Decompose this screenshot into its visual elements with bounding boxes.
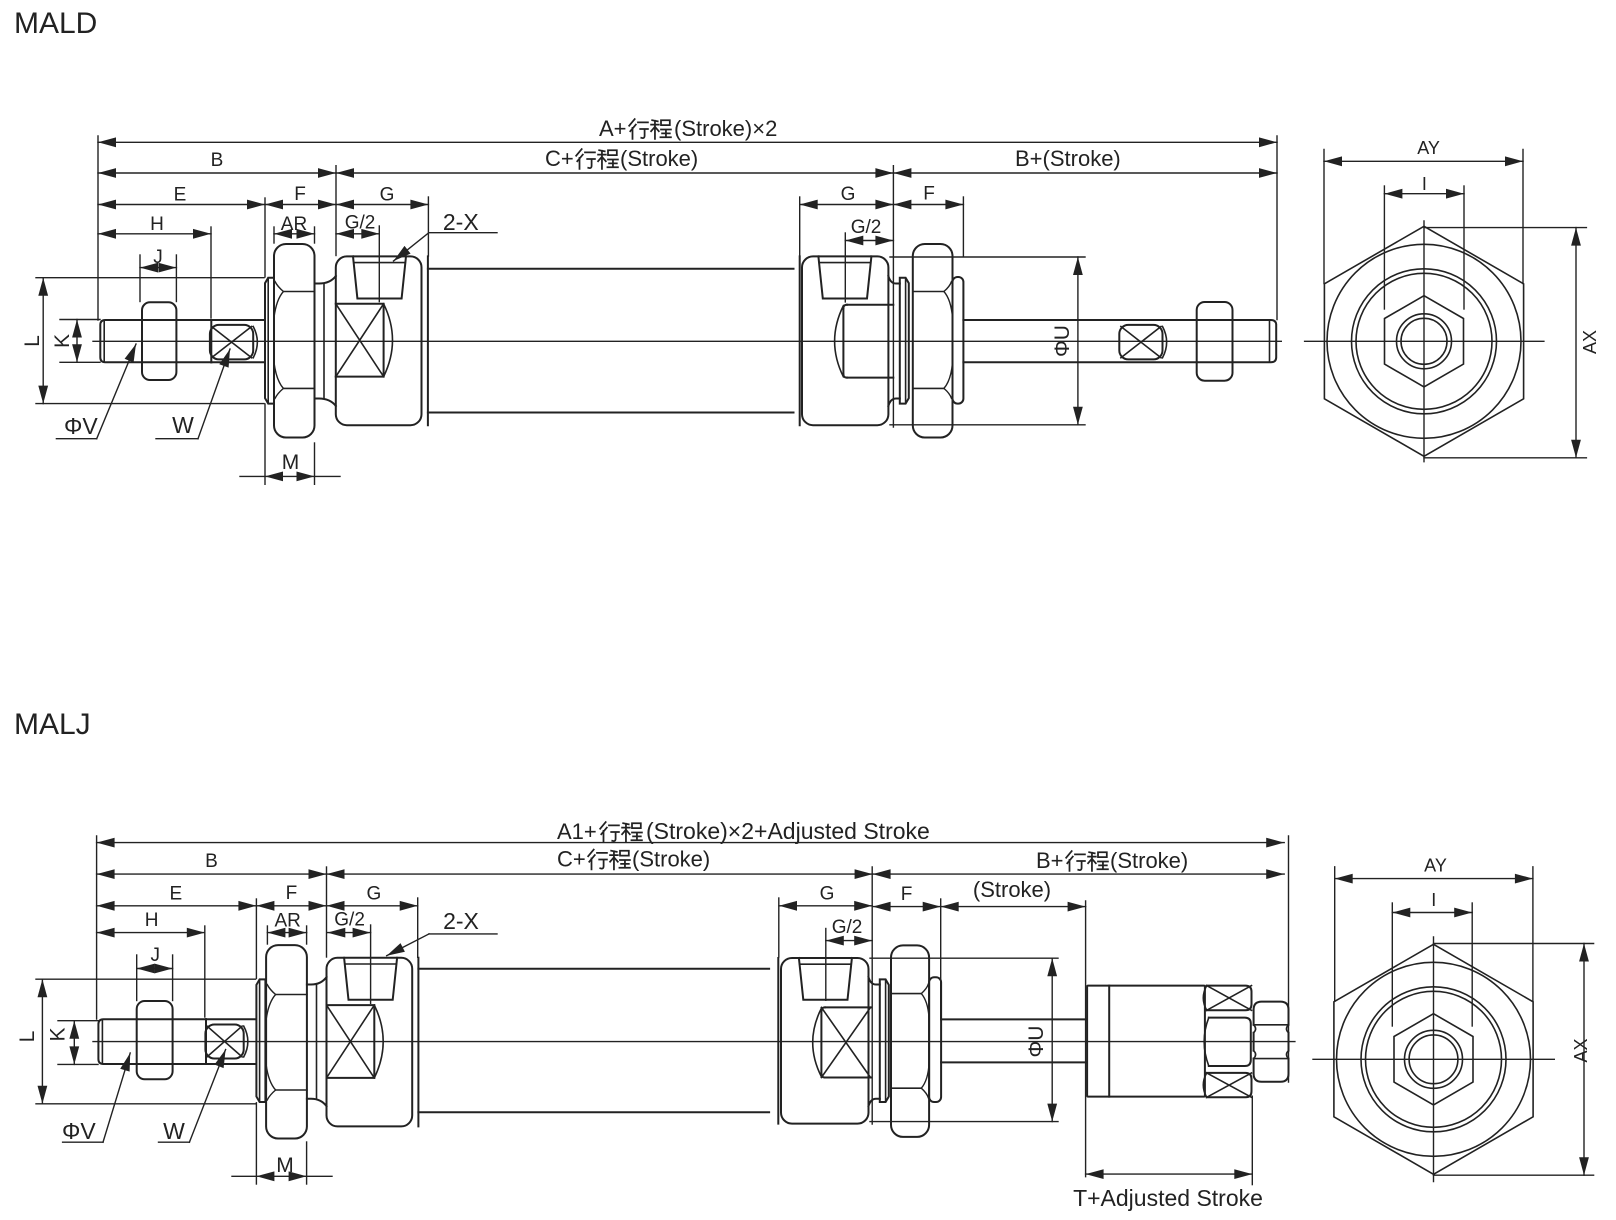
rear head cap MALJ [781, 958, 869, 1124]
svg-text:F: F [294, 184, 306, 205]
dimension G MALJ rear [779, 905, 872, 907]
dimension G (front) [336, 204, 428, 206]
svg-text:(Stroke)×2: (Stroke)×2 [674, 116, 777, 141]
cylinder tube (barrel) [428, 269, 794, 413]
adjuster body (shock absorber) [1087, 986, 1205, 1097]
end view crosshair centerlines [1305, 340, 1544, 342]
dimension F (rear) [893, 204, 963, 206]
piston rod MALJ (front) [98, 1019, 206, 1064]
extension lines I MALJ [1391, 903, 1393, 1026]
dimension AR MALJ [267, 932, 306, 934]
svg-text:W: W [163, 1118, 185, 1144]
extension lines AY [1323, 150, 1325, 284]
adjusting screw hex head [1254, 1002, 1289, 1025]
dimension F MALJ rear [873, 906, 941, 908]
boss neck MALJ front [307, 977, 327, 984]
dimension B MALJ [97, 873, 327, 875]
extension lines AX [1424, 227, 1586, 229]
svg-text:B+: B+ [1036, 848, 1064, 873]
svg-text:A+: A+ [599, 116, 627, 141]
extension line cap face MALJ [326, 867, 328, 957]
extension line left datum [97, 136, 99, 320]
end view tube inner circle [1356, 273, 1492, 409]
adjuster bottom wrench block with cross [1207, 1073, 1252, 1097]
adjusting screw boss [1209, 1018, 1251, 1066]
svg-text:M: M [282, 451, 300, 474]
rod nut J MALJ [137, 1001, 173, 1079]
svg-text:K: K [51, 334, 74, 348]
rear piston boss (no cross) [843, 305, 893, 378]
extension line G right MALJ [417, 898, 419, 957]
mounting hex nut MALJ rear [891, 945, 929, 1137]
svg-text:F: F [923, 184, 935, 205]
svg-text:L: L [21, 335, 44, 347]
dimension C+Stroke MALJ [327, 873, 873, 875]
extension lines PhiU horizontal [890, 256, 1085, 258]
svg-text:G/2: G/2 [334, 910, 365, 931]
extension line T right MALJ [1251, 1096, 1253, 1184]
svg-text:ΦU: ΦU [1051, 325, 1074, 357]
extension lines AR [273, 227, 275, 243]
dimension J MALJ [137, 968, 173, 970]
svg-text:J: J [151, 945, 161, 966]
front head cap MALJ [327, 958, 413, 1127]
svg-text:(Stroke): (Stroke) [620, 146, 698, 171]
dimension C+Stroke [336, 172, 893, 174]
rear thread boss tip [953, 277, 964, 404]
svg-text:A1+: A1+ [557, 819, 597, 844]
end view rod thread circle [1401, 318, 1447, 364]
piston rod (front, threaded) [100, 320, 211, 362]
extension line cap face B/C F/G [335, 166, 337, 256]
dimension I MALJ [1392, 912, 1472, 914]
dimension G MALJ front [327, 905, 418, 907]
rod wrench flats MALJ with cross [205, 1025, 243, 1059]
rear cap seam MALJ [777, 958, 779, 1124]
dimension F MALJ front [256, 905, 326, 907]
svg-text:MALJ: MALJ [14, 708, 91, 741]
svg-text:AY: AY [1424, 856, 1447, 876]
svg-text:B: B [205, 851, 218, 872]
extension lines K horizontal [60, 319, 100, 321]
end view MALJ rod thread circle [1409, 1035, 1458, 1084]
end view MALJ hexagon [1334, 944, 1533, 1174]
end view MALJ rod circle [1405, 1030, 1463, 1088]
mounting washer MALJ rear [880, 979, 889, 1102]
front head cap [336, 256, 422, 425]
rear piston boss MALJ with cross [821, 1007, 870, 1077]
extension line C/B boundary MALJ [871, 867, 873, 1124]
svg-text:2-X: 2-X [443, 209, 479, 235]
front cushion boss MALJ with cross [327, 1005, 375, 1078]
extension line washer face MALJ [255, 899, 257, 979]
svg-text:J: J [153, 247, 163, 268]
mounting boss neck between nut and front cap [315, 276, 336, 283]
svg-text:L: L [16, 1031, 39, 1043]
extension line C/B+ boundary rear cap face [892, 166, 894, 427]
extension line rod end for H [210, 227, 212, 318]
svg-text:E: E [169, 884, 182, 905]
dimension AY MALJ [1335, 878, 1533, 880]
extension lines AR MALJ [266, 926, 268, 944]
svg-text:I: I [1422, 174, 1427, 194]
end view tube outer circle [1352, 269, 1497, 414]
rear boss neck MALJ [869, 977, 880, 984]
rear port 2-X trapezoid [818, 256, 871, 298]
svg-text:(Stroke): (Stroke) [632, 847, 710, 872]
dimension G/2 (rear) [845, 240, 893, 242]
dimension E MALJ [97, 905, 257, 907]
svg-text:AX: AX [1571, 1038, 1591, 1062]
rear head cap [802, 256, 888, 425]
dimension A+Stroke x2 overall [98, 141, 1277, 143]
dimension L (vertical) [42, 278, 44, 404]
dimension AX MALJ [1583, 944, 1585, 1176]
rear port trapezoid MALJ [799, 958, 852, 1000]
rear rod wrench flats with cross mark [1119, 325, 1162, 360]
svg-text:ΦU: ΦU [1025, 1026, 1048, 1058]
extension line rear G left [799, 197, 801, 256]
svg-text:(Stroke)×2+Adjusted Stroke: (Stroke)×2+Adjusted Stroke [646, 818, 930, 844]
svg-text:B: B [211, 150, 224, 171]
dimension M [240, 475, 340, 477]
dimension B+(Stroke) rear [893, 172, 1277, 174]
rod thread silhouette lines to washer [211, 319, 265, 321]
extension line F right rear [962, 197, 964, 257]
end view hex chamfer circle [1327, 244, 1521, 438]
mounting hex nut MALJ front [266, 945, 307, 1138]
end view MALJ rod boss hexagon [1394, 1014, 1473, 1105]
svg-text:M: M [276, 1154, 294, 1177]
svg-text:2-X: 2-X [443, 908, 479, 934]
dimension G/2 (front) [336, 233, 379, 235]
rear cap flange seam line [799, 256, 801, 425]
dimension K MALJ [73, 1021, 75, 1065]
rear thread boss tip MALJ [929, 977, 941, 1102]
dimension G/2 MALJ rear [826, 940, 872, 942]
front port 2-X trapezoid MALJ [344, 958, 397, 1000]
front cap seam MALJ [417, 958, 419, 1127]
dimension B (front) [98, 172, 336, 174]
rod wrench flats W with cross mark [210, 325, 253, 360]
extension line left datum MALJ [96, 836, 98, 1019]
svg-text:C+: C+ [557, 847, 586, 872]
extension line right datum rod end [1276, 136, 1278, 320]
mounting hex nut (rear) [913, 244, 953, 438]
extension line F right MALJ [940, 899, 942, 1019]
svg-text:ΦV: ΦV [64, 413, 98, 439]
extension line A1/B right MALJ [1288, 836, 1290, 1082]
dimension T+Adjusted Stroke [1086, 1173, 1253, 1175]
extension lines PhiU MALJ horizontal [870, 957, 1058, 959]
svg-text:C+: C+ [545, 146, 574, 171]
end view MALJ crosshair [1313, 1058, 1554, 1060]
end view hexagon outline [1324, 226, 1523, 456]
mounting washer (front) [265, 278, 274, 404]
extension lines I [1383, 186, 1385, 309]
extension line rod end MALJ [204, 926, 206, 1017]
dimension AY [1324, 160, 1523, 162]
mounting washer MALJ front [256, 979, 265, 1102]
dimension B+Stroke MALJ rear [873, 873, 1285, 875]
dimension AX [1575, 228, 1577, 458]
extension lines K MALJ horizontal [58, 1020, 98, 1022]
end view MALJ chamfer circle [1337, 962, 1531, 1156]
svg-text:(Stroke): (Stroke) [1110, 848, 1188, 873]
svg-text:G/2: G/2 [345, 213, 376, 234]
end view rod circle [1397, 314, 1452, 369]
svg-text:B+(Stroke): B+(Stroke) [1015, 146, 1121, 171]
mounting hex nut AR (front) [274, 244, 315, 438]
svg-text:G: G [380, 185, 395, 206]
dimension PhiU (head diameter) [1077, 257, 1079, 425]
rod end face line at H extent [210, 320, 212, 362]
cylinder tube MALJ [418, 969, 769, 1113]
extension lines L horizontal [36, 277, 264, 279]
svg-text:E: E [174, 185, 187, 206]
svg-text:G: G [841, 184, 856, 205]
extension line port center MALJ [370, 925, 372, 1003]
svg-text:G: G [367, 884, 382, 905]
svg-text:MALD: MALD [14, 7, 97, 40]
extension lines J [139, 255, 141, 302]
extension lines J MALJ [136, 955, 138, 1001]
rear rod to adjuster MALJ [941, 1019, 1087, 1062]
rear piston rod [963, 320, 1276, 362]
front port 2-X trapezoid [353, 256, 406, 298]
dimension F (front) [265, 204, 336, 206]
dimension H MALJ [97, 932, 205, 934]
dimension J [140, 267, 176, 269]
svg-text:AR: AR [274, 911, 300, 932]
end view MALJ tube inner circle [1366, 991, 1502, 1127]
front cap flange seam line [427, 256, 429, 425]
dimension I [1384, 193, 1464, 195]
rear boss neck between cap and washer [888, 276, 899, 283]
extension lines L MALJ horizontal [36, 978, 255, 980]
svg-text:F: F [286, 883, 298, 904]
dimension M MALJ [232, 1175, 332, 1177]
svg-text:W: W [172, 412, 194, 438]
svg-text:H: H [145, 910, 159, 931]
svg-text:AR: AR [281, 214, 307, 235]
dimension H [98, 233, 211, 235]
svg-text:G/2: G/2 [851, 217, 882, 238]
dimension (Stroke) MALJ [941, 906, 1086, 908]
svg-text:K: K [47, 1027, 70, 1041]
dimension E [98, 204, 265, 206]
svg-text:ΦV: ΦV [62, 1118, 96, 1144]
extension lines AY MALJ [1334, 867, 1336, 1001]
svg-text:AX: AX [1580, 330, 1600, 354]
svg-text:I: I [1431, 890, 1436, 910]
extension line port center G/2 [378, 226, 380, 302]
adjuster top wrench block with cross [1207, 986, 1252, 1011]
end view rod boss hexagon [1385, 296, 1464, 387]
extension line rear port center G/2 [844, 233, 846, 302]
dimension K (rod diameter) [76, 320, 78, 363]
extension line rear G left MALJ [778, 898, 780, 957]
end view MALJ tube outer circle [1361, 987, 1506, 1132]
extension line washer face / M left [264, 198, 266, 277]
centerline of MALJ cylinder [93, 1041, 1295, 1043]
dimension A1 overall MALJ [97, 842, 1285, 844]
svg-text:T+Adjusted Stroke: T+Adjusted Stroke [1073, 1185, 1263, 1211]
front cushion boss with cross (X) section mark [336, 304, 384, 377]
svg-text:F: F [901, 884, 913, 905]
dimension PhiU MALJ [1051, 958, 1053, 1121]
svg-text:AY: AY [1417, 138, 1440, 158]
centerline of MALD cylinder [93, 340, 1281, 342]
dimension L MALJ [41, 979, 43, 1104]
svg-text:G/2: G/2 [832, 917, 863, 938]
svg-text:G: G [820, 884, 835, 905]
svg-text:H: H [150, 214, 164, 235]
dimension G (rear) [800, 204, 894, 206]
dimension G/2 MALJ [327, 932, 370, 934]
rear rod nut [1197, 302, 1233, 381]
extension line Stroke right / T left MALJ [1085, 901, 1087, 1177]
svg-text:(Stroke): (Stroke) [973, 877, 1051, 902]
rod nut J (front) [142, 302, 176, 380]
extension line rear port center MALJ [825, 929, 827, 1001]
extension lines AX MALJ [1434, 943, 1594, 945]
mounting washer (rear) [900, 278, 909, 404]
extension line G right [427, 197, 429, 256]
dimension AR [274, 233, 315, 235]
